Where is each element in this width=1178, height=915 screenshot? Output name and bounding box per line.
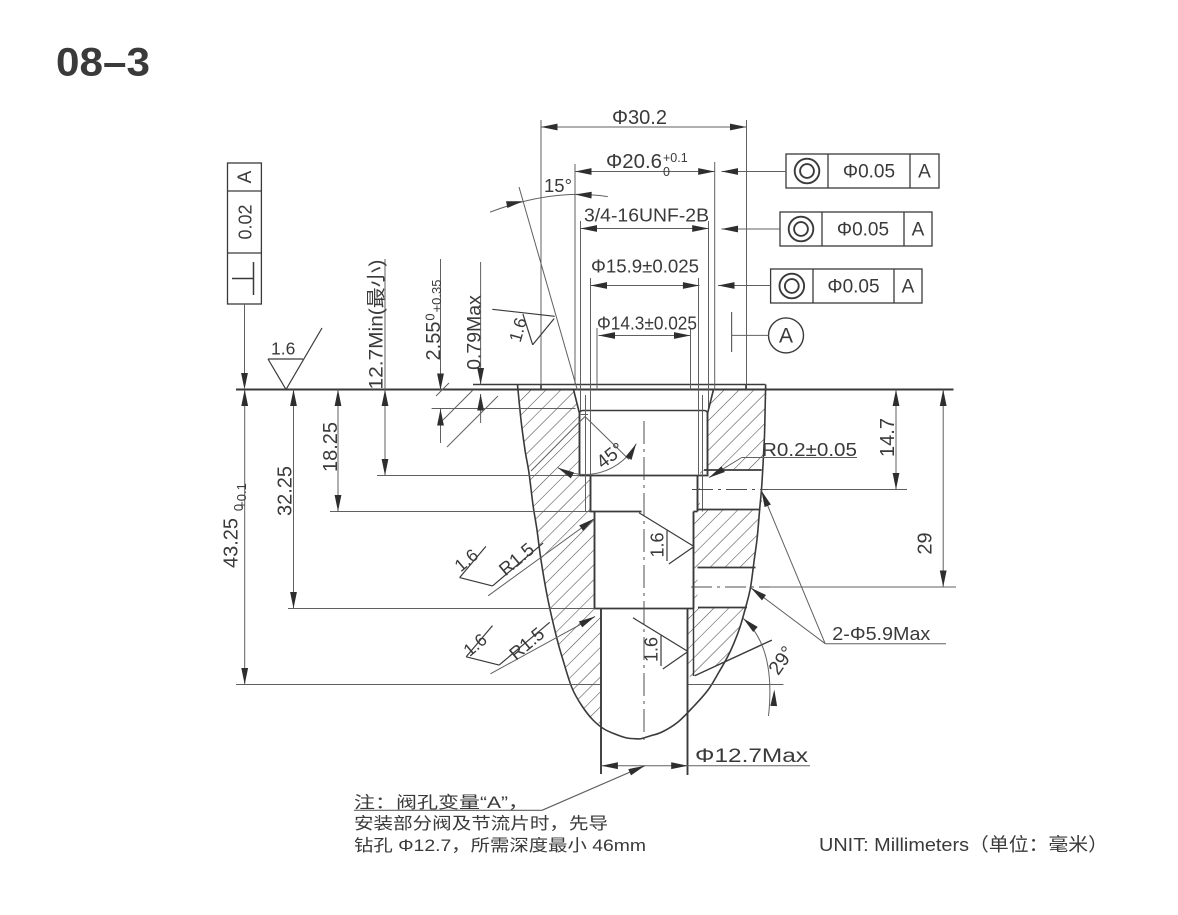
svg-text:A: A xyxy=(902,277,915,298)
svg-text:43.25: 43.25 xyxy=(220,518,242,568)
svg-text:12.7Min(最小): 12.7Min(最小) xyxy=(365,260,387,390)
svg-text:29: 29 xyxy=(915,532,937,554)
svg-text:Φ30.2: Φ30.2 xyxy=(612,107,667,129)
svg-text:Φ0.05: Φ0.05 xyxy=(837,220,889,241)
svg-text:A: A xyxy=(779,324,793,347)
svg-text:Φ0.05: Φ0.05 xyxy=(827,277,879,298)
svg-text:0: 0 xyxy=(423,313,438,320)
svg-text:0: 0 xyxy=(663,165,670,179)
svg-text:2.55: 2.55 xyxy=(423,322,445,361)
svg-text:08–3: 08–3 xyxy=(56,41,150,85)
svg-text:Φ14.3±0.025: Φ14.3±0.025 xyxy=(597,313,697,334)
svg-text:UNIT: Millimeters（单位：毫米）: UNIT: Millimeters（单位：毫米） xyxy=(819,834,1108,855)
svg-text:A: A xyxy=(912,220,925,241)
svg-text:0.02: 0.02 xyxy=(236,204,256,239)
svg-text:18.25: 18.25 xyxy=(320,422,342,472)
svg-text:+0.1: +0.1 xyxy=(663,151,688,165)
svg-text:Φ20.6: Φ20.6 xyxy=(606,151,662,173)
svg-text:安装部分阀及节流片时，先导: 安装部分阀及节流片时，先导 xyxy=(354,814,608,833)
svg-text:3/4-16UNF-2B: 3/4-16UNF-2B xyxy=(584,205,709,226)
svg-text:注：阀孔变量“A”，: 注：阀孔变量“A”， xyxy=(354,793,529,812)
svg-text:2-Φ5.9Max: 2-Φ5.9Max xyxy=(832,623,931,644)
svg-text:1.6: 1.6 xyxy=(648,532,668,557)
svg-text:Φ15.9±0.025: Φ15.9±0.025 xyxy=(591,256,699,277)
svg-text:Φ0.05: Φ0.05 xyxy=(843,162,895,183)
svg-text:Φ12.7Max: Φ12.7Max xyxy=(695,746,809,767)
svg-text:R0.2±0.05: R0.2±0.05 xyxy=(762,439,857,460)
svg-text:A: A xyxy=(918,162,931,183)
svg-text:32.25: 32.25 xyxy=(275,466,297,516)
svg-text:钻孔 Φ12.7，所需深度最小 46mm: 钻孔 Φ12.7，所需深度最小 46mm xyxy=(354,836,646,855)
svg-text:A: A xyxy=(235,170,256,183)
svg-text:+0.35: +0.35 xyxy=(429,280,444,313)
svg-text:0: 0 xyxy=(231,504,246,511)
svg-text:0.79Max: 0.79Max xyxy=(463,295,485,370)
svg-text:15°: 15° xyxy=(544,175,572,196)
svg-text:1.6: 1.6 xyxy=(271,339,295,359)
svg-text:1.6: 1.6 xyxy=(642,637,662,662)
svg-text:14.7: 14.7 xyxy=(877,418,899,457)
